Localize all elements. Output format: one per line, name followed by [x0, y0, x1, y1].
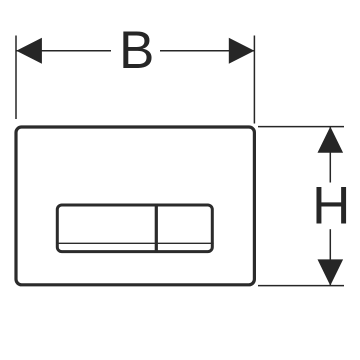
B extension line left	[15, 36, 17, 120]
button split line	[56, 242, 214, 244]
svg-text:B: B	[119, 21, 154, 80]
button panel outline	[57, 205, 212, 252]
svg-text:H: H	[312, 177, 350, 236]
flush plate outline	[16, 127, 254, 285]
H arrow up	[318, 127, 344, 153]
B extension line right	[253, 36, 255, 124]
B arrow right	[229, 38, 255, 64]
B dimension line right segment	[160, 50, 254, 52]
H extension line bottom	[258, 285, 344, 287]
H arrow down	[318, 259, 344, 285]
H extension line top	[258, 126, 344, 128]
button divider	[155, 204, 158, 253]
B arrow left	[16, 38, 42, 64]
H dimension line top segment	[329, 127, 331, 183]
B dimension line left segment	[16, 50, 111, 52]
H dimension line bottom segment	[329, 229, 331, 285]
